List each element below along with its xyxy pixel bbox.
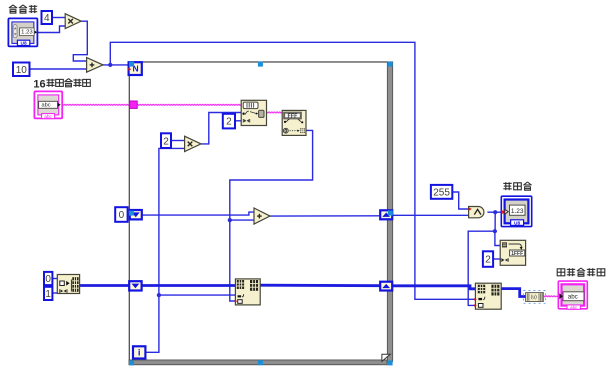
svg-text:U8: U8 xyxy=(514,221,520,227)
svg-text:255: 255 xyxy=(433,187,450,198)
svg-text:FFF: FFF xyxy=(288,113,299,119)
svg-text:U8: U8 xyxy=(21,41,27,47)
svg-text:2: 2 xyxy=(226,117,232,128)
svg-text:abc: abc xyxy=(568,294,578,301)
svg-text:abc: abc xyxy=(41,102,50,108)
svg-text:2: 2 xyxy=(163,136,169,147)
svg-text:abc: abc xyxy=(44,114,52,120)
svg-text:0: 0 xyxy=(45,274,51,285)
svg-text:abc: abc xyxy=(570,305,578,310)
svg-text:2: 2 xyxy=(485,255,491,266)
svg-text:4: 4 xyxy=(44,13,50,24)
svg-text:10: 10 xyxy=(16,65,28,76)
svg-text:0: 0 xyxy=(119,210,125,221)
svg-text:1FFF: 1FFF xyxy=(511,251,523,257)
svg-text:1.23: 1.23 xyxy=(21,30,33,36)
svg-text:(u): (u) xyxy=(531,295,537,301)
svg-text:1: 1 xyxy=(45,289,51,300)
svg-text:16: 16 xyxy=(33,78,45,90)
svg-text:i: i xyxy=(138,348,141,359)
svg-text:1.23: 1.23 xyxy=(511,208,524,215)
